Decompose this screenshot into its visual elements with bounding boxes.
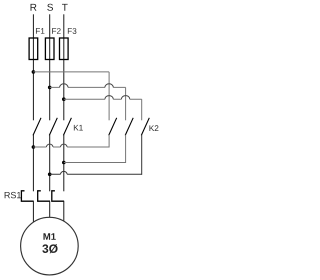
- wire S phase upper: [49, 14, 51, 120]
- node junction dot S top: [48, 86, 52, 90]
- node junction dot T bottom: [62, 161, 66, 165]
- wire K2 pole2 output horizontal: [64, 162, 126, 164]
- contactor K1 pole1 contact: [33, 118, 41, 136]
- wire hop over K2 pole2: [121, 96, 129, 100]
- node R label: [31, 4, 37, 11]
- wire T phase upper: [63, 14, 65, 120]
- overload relay RS1 label: [5, 192, 21, 198]
- fuse F2: [45, 38, 54, 60]
- contactor K2 pole3 contact: [141, 118, 149, 136]
- node junction dot S bottom: [48, 173, 52, 177]
- wire K2 pole2 upper vertical: [125, 87, 127, 120]
- fuse F2 label: [52, 28, 60, 34]
- wire hop over S line: [46, 144, 53, 147]
- motor M1 circle: [21, 217, 79, 275]
- fuse F3 label: [68, 28, 77, 34]
- contactor K1 label: [74, 125, 83, 131]
- wire T to motor: [63, 201, 65, 224]
- wire K2 pole1 upper vertical: [108, 72, 110, 120]
- node junction dot R top: [32, 70, 36, 74]
- wire hop over T line: [61, 144, 68, 147]
- wire hop over T line: [60, 84, 68, 88]
- wire S phase lower: [49, 135, 51, 192]
- contactor K1 pole2 contact: [49, 118, 57, 136]
- node junction dot R bottom: [32, 145, 36, 149]
- wire T junction to K2 pole3 horizontal: [64, 98, 142, 100]
- wire S junction to K2 pole2 horizontal: [50, 86, 126, 88]
- wire R to motor: [32, 201, 34, 226]
- wire K2 pole3 output horizontal: [50, 173, 142, 175]
- node S label: [47, 4, 53, 11]
- wire K2 pole1 output horizontal: [33, 146, 109, 148]
- wire K2 pole2 lower vertical: [125, 135, 127, 163]
- wire R phase upper: [32, 14, 34, 120]
- contactor K2 label: [149, 125, 158, 131]
- wire S to motor: [49, 201, 51, 219]
- wire R phase lower: [32, 135, 34, 192]
- wire K2 pole1 lower vertical: [108, 135, 110, 148]
- overload relay RS1 heater 2: [38, 191, 50, 201]
- fuse F1: [29, 38, 38, 60]
- motor phase label 3Ø: [42, 244, 57, 253]
- wire K2 pole3 upper vertical: [141, 99, 143, 120]
- wire hop over K2 pole1: [105, 84, 113, 88]
- contactor K2 pole1 contact: [109, 118, 117, 136]
- overload relay RS1 heater 3: [52, 191, 64, 201]
- node junction dot T top: [62, 97, 66, 101]
- contactor K1 pole3 contact: [63, 118, 71, 136]
- wire R junction to K2 pole1 horizontal: [33, 71, 109, 73]
- overload relay RS1 heater 1: [21, 191, 33, 201]
- contactor K2 pole2 contact: [125, 118, 133, 136]
- wire T phase lower: [63, 135, 65, 192]
- motor M1 label: [43, 233, 55, 240]
- wire K2 pole3 lower vertical: [141, 135, 143, 175]
- wire hop over T line: [61, 171, 68, 174]
- node T label: [62, 4, 68, 11]
- fuse F3: [60, 38, 69, 60]
- wire hop over K2 pole1: [105, 96, 113, 100]
- fuse F1 label: [36, 28, 45, 34]
